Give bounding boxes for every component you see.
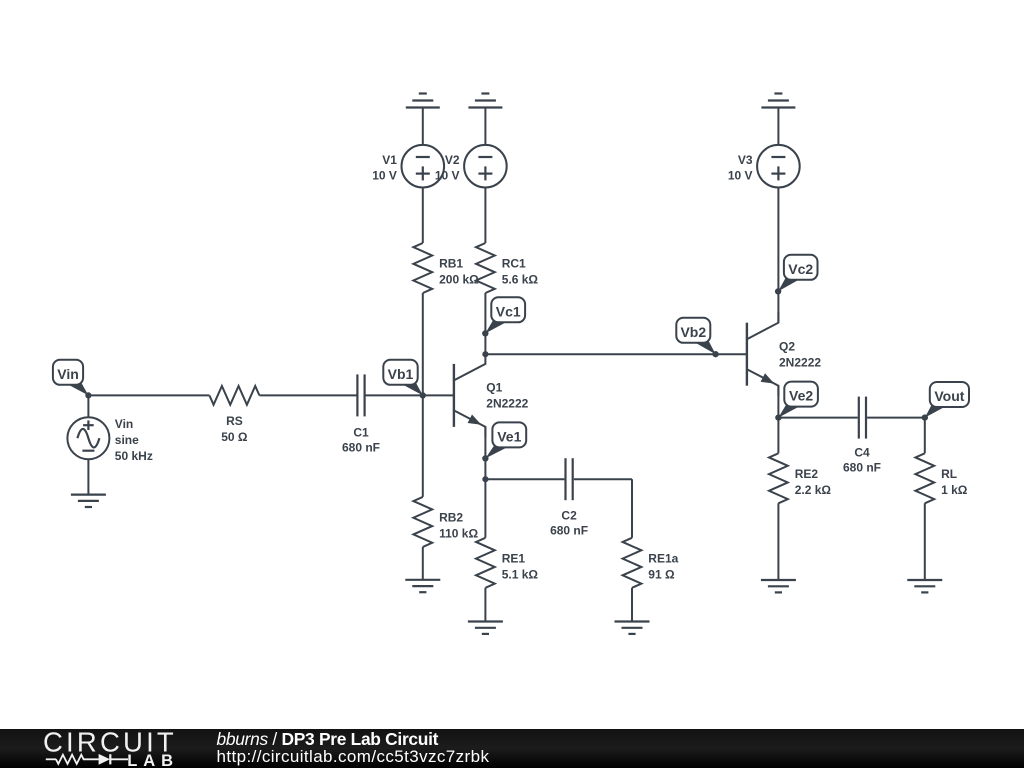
svg-text:2N2222: 2N2222 xyxy=(486,396,528,410)
label RB1 value xyxy=(439,257,479,287)
voltage source V1 xyxy=(402,145,445,188)
svg-text:1 kΩ: 1 kΩ xyxy=(941,483,968,497)
wire Vin node down xyxy=(87,395,89,417)
wire RE1a corner down xyxy=(631,479,633,538)
resistor RB1 zigzag xyxy=(413,243,432,293)
wire C4 to Vout xyxy=(867,417,925,419)
svg-text:50 Ω: 50 Ω xyxy=(221,430,248,444)
label RE1a value xyxy=(648,551,678,581)
node Ve1 node xyxy=(482,455,488,461)
label C1 value xyxy=(342,426,380,455)
svg-text:V3: V3 xyxy=(738,153,753,167)
node flag Vc2 xyxy=(775,255,818,295)
resistor RE1a zigzag xyxy=(623,538,642,588)
svg-text:C2: C2 xyxy=(561,508,577,522)
node flag Vc1 xyxy=(482,297,525,336)
label RC1 value xyxy=(502,257,539,287)
svg-text:RB1: RB1 xyxy=(439,257,463,271)
transistor Q1 (NPN) xyxy=(454,353,486,437)
svg-text:91 Ω: 91 Ω xyxy=(648,567,675,581)
label RS value xyxy=(221,414,248,444)
ground GND-V3 top (flipped) xyxy=(761,94,795,108)
svg-text:Vc2: Vc2 xyxy=(788,261,813,277)
node flag Ve1 xyxy=(482,422,526,461)
resistor RB2 zigzag xyxy=(413,497,432,547)
svg-text:Vb1: Vb1 xyxy=(388,366,414,382)
svg-text:Q2: Q2 xyxy=(779,340,795,354)
node flag Ve2 xyxy=(775,382,818,421)
svg-text:V2: V2 xyxy=(445,153,460,167)
wire Q1 emitter down xyxy=(484,427,486,538)
label Vin source value xyxy=(115,417,153,463)
resistor RC1 zigzag xyxy=(476,243,495,293)
wire Ve1 to C2 xyxy=(485,478,564,480)
wire RE1 to gnd xyxy=(484,588,486,622)
svg-text:2N2222: 2N2222 xyxy=(779,356,821,370)
wire Ve2 to C4 xyxy=(778,417,857,419)
svg-text:C4: C4 xyxy=(854,445,870,459)
svg-text:Vin: Vin xyxy=(115,417,133,431)
svg-text:RB2: RB2 xyxy=(439,510,463,524)
transistor Q2 (NPN) xyxy=(747,312,779,396)
node Vb2 node xyxy=(713,351,719,357)
footer bar xyxy=(0,729,1024,768)
svg-text:Ve1: Ve1 xyxy=(497,428,521,444)
ground GND-V1 top (flipped) xyxy=(406,94,440,108)
wire V2 to RC1 xyxy=(484,187,486,243)
voltage source V3 xyxy=(757,145,800,188)
label RL value xyxy=(941,467,968,497)
wire RB1 to Vb1 node xyxy=(422,293,424,395)
label RB2 value xyxy=(439,510,478,540)
label C2 value xyxy=(550,508,588,537)
node flag Vb2 xyxy=(676,318,718,358)
label Q1 value xyxy=(486,380,528,410)
svg-text:10 V: 10 V xyxy=(372,168,397,182)
wire V2 gnd to V2 xyxy=(484,108,486,146)
node Vout node xyxy=(922,415,928,421)
label V1 value xyxy=(372,153,397,183)
wire Ve2 to RE2 xyxy=(777,418,779,454)
label C4 value xyxy=(843,445,881,474)
wire V3 to Vc2 xyxy=(777,187,779,323)
resistor RS zigzag xyxy=(209,386,259,405)
svg-text:5.6 kΩ: 5.6 kΩ xyxy=(502,273,539,287)
wire Vin source to gnd xyxy=(87,459,89,495)
node emitter rail junction xyxy=(482,476,488,482)
svg-text:5.1 kΩ: 5.1 kΩ xyxy=(502,567,539,581)
wire V3 gnd to V3 xyxy=(777,108,779,146)
svg-text:Vin: Vin xyxy=(57,366,79,382)
ground GND-RB2 xyxy=(405,580,440,592)
ground GND-RE1a xyxy=(615,622,650,634)
ground GND-Vin xyxy=(71,495,106,507)
wire RE2 to gnd xyxy=(777,503,779,580)
svg-text:110 kΩ: 110 kΩ xyxy=(439,526,478,540)
wire Vb1 to RB2 xyxy=(422,395,424,497)
wire Q2 emitter down xyxy=(777,386,779,418)
node flag Vin xyxy=(53,360,92,399)
svg-text:680 nF: 680 nF xyxy=(843,460,881,474)
svg-text:RC1: RC1 xyxy=(502,257,526,271)
capacitor C4 xyxy=(859,397,866,439)
wire Vout to RL xyxy=(924,418,926,454)
label V3 value xyxy=(728,153,753,183)
node flag Vb1 xyxy=(383,360,426,399)
svg-text:RS: RS xyxy=(226,414,243,428)
ground GND-V2 top (flipped) xyxy=(468,94,502,108)
node Vc2 node xyxy=(775,288,781,294)
resistor RE1 zigzag xyxy=(476,538,495,588)
node Ve2 node xyxy=(775,415,781,421)
svg-text:RL: RL xyxy=(941,467,957,481)
wire RE1a to gnd xyxy=(631,588,633,622)
svg-text:Vout: Vout xyxy=(934,388,964,404)
wire RS to C1 xyxy=(259,394,356,396)
svg-text:V1: V1 xyxy=(382,153,397,167)
svg-text:Vc1: Vc1 xyxy=(496,303,521,319)
svg-text:Ve2: Ve2 xyxy=(789,388,813,404)
svg-text:RE1a: RE1a xyxy=(648,551,678,565)
capacitor C1 xyxy=(357,374,364,416)
voltage source Vin source (sine) xyxy=(67,417,109,459)
node Q1 collector junction xyxy=(482,351,488,357)
wire Vb2 rail xyxy=(485,353,747,355)
wire V1 gnd to V1 xyxy=(422,108,424,146)
svg-text:10 V: 10 V xyxy=(728,168,753,182)
CircuitLab logo xyxy=(30,729,230,768)
wire C1 to Q1 base xyxy=(366,394,454,396)
svg-text:C1: C1 xyxy=(353,426,369,440)
svg-text:680 nF: 680 nF xyxy=(342,441,380,455)
svg-text:200 kΩ: 200 kΩ xyxy=(439,273,479,287)
node Vc1 node xyxy=(482,330,488,336)
svg-text:RE2: RE2 xyxy=(795,467,819,481)
ground GND-RE2 xyxy=(761,580,796,592)
svg-text:Q1: Q1 xyxy=(486,380,502,394)
svg-text:Vb2: Vb2 xyxy=(680,324,706,340)
svg-text:2.2 kΩ: 2.2 kΩ xyxy=(795,483,832,497)
capacitor C2 xyxy=(566,458,573,500)
wire C2 to RE1a corner xyxy=(574,478,632,480)
label RE2 value xyxy=(795,467,832,497)
wire V1 to RB1 xyxy=(422,187,424,243)
wire Vin node to RS xyxy=(88,394,209,396)
svg-text:680 nF: 680 nF xyxy=(550,523,588,537)
wire RL to gnd xyxy=(924,503,926,580)
resistor RE2 zigzag xyxy=(769,453,788,503)
wire RC1 to Vc1 node xyxy=(484,293,486,354)
svg-text:LAB: LAB xyxy=(127,752,179,768)
label Q2 value xyxy=(779,340,821,370)
resistor RL zigzag xyxy=(915,453,934,503)
footer title text xyxy=(217,731,490,766)
svg-text:sine: sine xyxy=(115,433,139,447)
node Vb1 junction xyxy=(420,392,426,398)
label V2 value xyxy=(435,153,460,183)
wire RB2 to gnd xyxy=(422,547,424,580)
svg-text:RE1: RE1 xyxy=(502,551,526,565)
voltage source V2 xyxy=(464,145,507,188)
ground GND-RL xyxy=(907,580,942,592)
svg-text:10 V: 10 V xyxy=(435,168,460,182)
ground GND-RE1 xyxy=(468,622,503,634)
svg-text:50 kHz: 50 kHz xyxy=(115,449,153,463)
node flag Vout xyxy=(922,382,969,421)
label RE1 value xyxy=(502,551,539,581)
